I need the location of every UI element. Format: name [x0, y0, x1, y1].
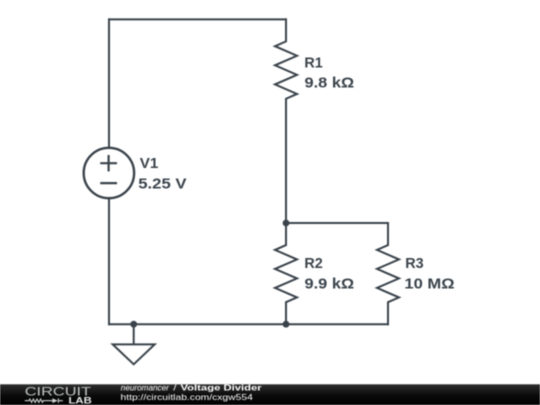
svg-text:http://circuitlab.com/cxgw554: http://circuitlab.com/cxgw554 [121, 393, 253, 403]
svg-text:10 MΩ: 10 MΩ [404, 276, 454, 292]
svg-text:V1: V1 [140, 157, 159, 173]
svg-text:neuromancer: neuromancer [121, 382, 170, 392]
svg-text:LAB: LAB [69, 396, 93, 405]
svg-text:/: / [173, 383, 176, 392]
svg-text:Voltage Divider: Voltage Divider [181, 383, 262, 392]
svg-text:5.25 V: 5.25 V [138, 177, 187, 193]
svg-text:R1: R1 [304, 55, 322, 71]
svg-text:R2: R2 [304, 256, 322, 272]
svg-text:9.8 kΩ: 9.8 kΩ [305, 75, 355, 91]
svg-text:9.9 kΩ: 9.9 kΩ [305, 276, 355, 292]
svg-text:R3: R3 [405, 256, 423, 272]
